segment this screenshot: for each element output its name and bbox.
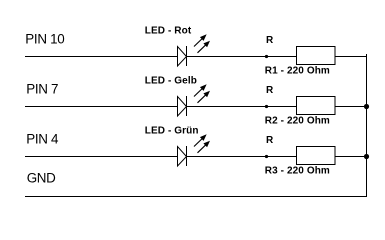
resistor R3 body	[297, 147, 336, 165]
LED D2 light arrows	[194, 85, 209, 102]
wire GND net	[25, 196, 367, 198]
wire common bus vertical	[366, 54, 368, 197]
LED D3 symbol (green)	[178, 146, 187, 166]
svg-text:PIN 4: PIN 4	[26, 131, 59, 146]
svg-text:LED - Rot: LED - Rot	[145, 26, 192, 37]
svg-text:GND: GND	[27, 171, 56, 186]
wire R1 output to bus	[335, 56, 367, 58]
LED D1 light arrows	[194, 35, 209, 52]
svg-text:R: R	[266, 85, 274, 96]
wire PIN 10 net: LED cathode to R1	[186, 56, 296, 58]
resistor R1 body	[297, 47, 336, 65]
LED D3 light arrows	[194, 135, 209, 152]
svg-text:R1 - 220 Ohm: R1 - 220 Ohm	[265, 66, 330, 77]
svg-text:PIN 10: PIN 10	[25, 31, 64, 46]
pin connection dot R1 input	[265, 55, 268, 58]
wire R3 output to bus	[335, 156, 367, 158]
wire R2 output to bus	[335, 106, 367, 108]
junction dot bus/R3	[364, 154, 369, 159]
wire PIN 10 net: left segment	[25, 56, 177, 58]
svg-text:LED - Grün: LED - Grün	[145, 126, 199, 137]
wire PIN 7 net: LED cathode to R2	[186, 106, 296, 108]
svg-text:LED - Gelb: LED - Gelb	[145, 76, 197, 87]
pin connection dot R3 input	[265, 155, 268, 158]
junction dot bus/R2	[364, 104, 369, 109]
pin connection dot R2 input	[265, 105, 268, 108]
svg-text:R3 - 220 Ohm: R3 - 220 Ohm	[265, 166, 330, 177]
wire PIN 7 net: left segment	[25, 106, 177, 108]
svg-text:PIN 7: PIN 7	[26, 81, 58, 96]
wire PIN 4 net: left segment	[25, 156, 177, 158]
LED D2 symbol (yellow)	[178, 96, 187, 116]
resistor R2 body	[297, 97, 336, 115]
svg-text:R: R	[266, 135, 274, 146]
svg-text:R: R	[266, 35, 274, 46]
LED D1 symbol (red)	[178, 46, 187, 66]
wire PIN 4 net: LED cathode to R3	[186, 156, 296, 158]
svg-text:R2 - 220 Ohm: R2 - 220 Ohm	[265, 116, 330, 127]
